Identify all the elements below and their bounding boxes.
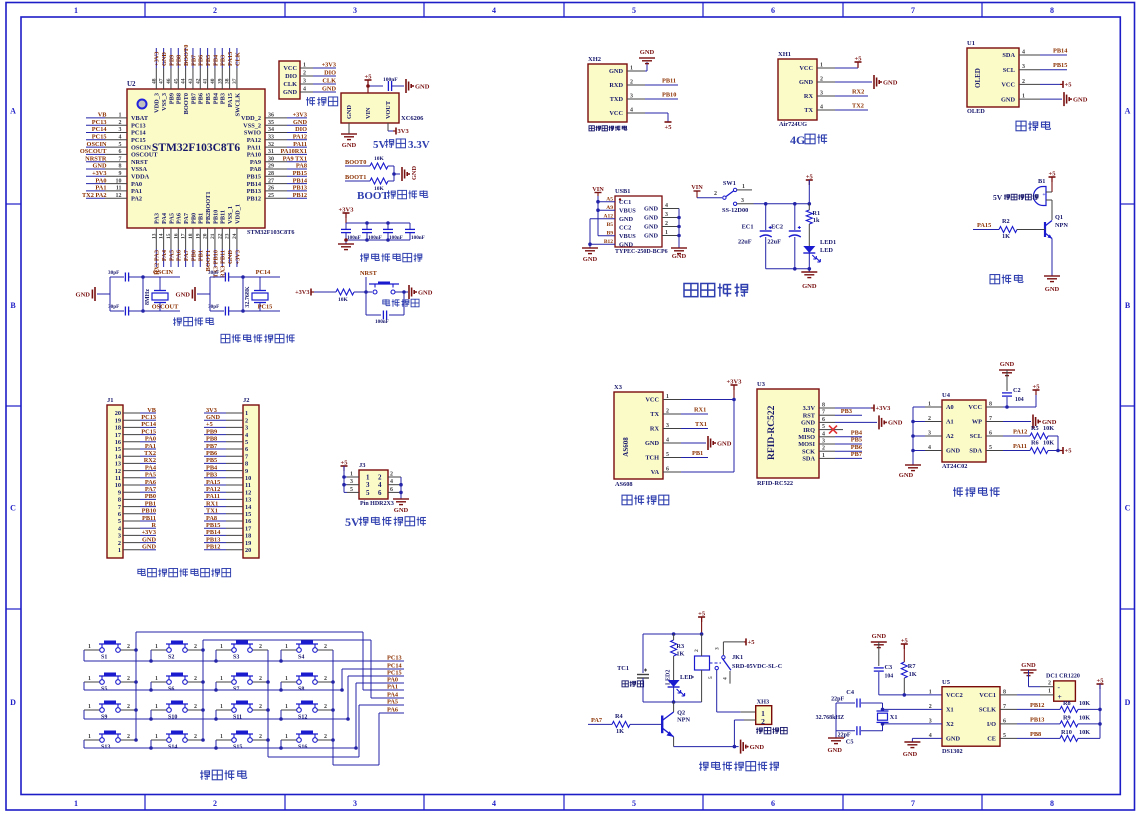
crystal 8MHz [145,277,168,311]
wire XH3 pin2 [733,720,756,748]
switch SW1 SS-12D00 [697,180,752,214]
label crystal circuit [173,317,214,325]
svg-text:+5: +5 [365,74,373,81]
svg-text:A: A [10,107,16,116]
svg-text:1: 1 [88,734,91,740]
svg-text:VDD_3: VDD_3 [154,93,161,113]
wire top rail [643,632,703,636]
power +5 right [1097,678,1105,739]
svg-text:PA11: PA11 [1013,443,1027,450]
svg-text:6: 6 [378,489,382,497]
svg-text:GND: GND [142,544,156,551]
svg-text:2: 2 [324,676,327,682]
svg-text:WP: WP [972,419,982,426]
svg-text:GND: GND [888,420,903,427]
svg-text:100nF: 100nF [347,235,361,241]
ground C2 top [999,361,1015,376]
svg-text:PA4: PA4 [145,464,157,471]
svg-text:4: 4 [119,135,122,141]
svg-text:X1: X1 [890,714,898,721]
svg-text:3: 3 [666,423,669,429]
svg-text:DIO: DIO [285,73,297,80]
net label PA15 [973,222,999,230]
svg-text:1: 1 [742,184,745,190]
svg-text:PC14: PC14 [131,130,147,137]
wire to XH3 [717,670,756,712]
wire keyboard row lines [84,650,400,750]
svg-text:Q2: Q2 [677,710,685,717]
svg-text:PC13: PC13 [141,414,156,421]
chip U2 STM32F103C8T6 [127,80,294,236]
svg-text:2: 2 [194,734,197,740]
power +5 [806,174,814,204]
svg-text:2: 2 [259,676,262,682]
power +5 [1040,81,1072,89]
svg-text:PB10: PB10 [142,508,156,515]
svg-text:R8: R8 [1063,700,1071,707]
svg-text:GND: GND [161,52,168,66]
svg-text:GND: GND [903,751,918,758]
svg-text:PB3: PB3 [841,408,852,415]
ground [341,134,357,149]
U2 pin 14 PA4 [159,212,168,267]
svg-text:37: 37 [232,78,238,84]
svg-text:PB5: PB5 [205,93,212,104]
svg-text:30pF: 30pF [208,270,219,276]
svg-text:44: 44 [181,78,187,84]
svg-text:10K: 10K [1079,700,1090,707]
svg-text:+5: +5 [748,639,756,646]
svg-text:6: 6 [822,417,825,423]
svg-text:14: 14 [245,504,252,511]
svg-text:PB14: PB14 [293,177,308,184]
svg-text:PB10: PB10 [662,92,676,99]
svg-text:2: 2 [761,717,765,726]
label relay control output [699,762,779,771]
svg-text:R6: R6 [1031,440,1039,447]
svg-text:1: 1 [88,644,91,650]
crystal 32.768K [245,277,268,311]
svg-text:VCC: VCC [1001,82,1015,89]
svg-text:PB15: PB15 [293,170,307,177]
wire right rail [141,275,145,313]
resistor R6 10K [1030,440,1060,454]
wire node NRST [354,277,368,294]
net label PC15 [385,670,404,677]
U2 pin 38 PA15 [225,48,234,107]
svg-text:1: 1 [155,644,158,650]
svg-text:PB1: PB1 [198,250,205,261]
U2 pin 36 VDD_2 [241,112,307,123]
svg-text:10K: 10K [1043,425,1054,432]
label matrix keyboard [200,770,247,780]
power +5 R7 [901,638,909,663]
svg-text:SWIO: SWIO [244,130,261,137]
svg-text:VCC1: VCC1 [979,692,996,699]
svg-text:STM32F103C8T6: STM32F103C8T6 [152,142,240,154]
svg-text:1: 1 [155,704,158,710]
svg-text:16: 16 [115,439,121,446]
svg-text:TX2: TX2 [144,450,156,457]
U2 pin 41 PB5 [203,48,212,104]
svg-text:3: 3 [715,647,721,650]
net label TX1 [681,421,708,429]
resistor R8 10K [1044,700,1100,712]
svg-text:CE: CE [987,736,996,743]
svg-text:TX2 PA2: TX2 PA2 [82,192,107,199]
svg-text:PB4: PB4 [851,430,863,437]
svg-text:SWCLK: SWCLK [234,93,241,117]
svg-text:1: 1 [220,676,223,682]
svg-text:8: 8 [119,164,122,170]
U2 pin 3 PC14 [86,126,147,137]
svg-text:GND: GND [644,215,658,222]
net label PB1 [681,450,708,458]
svg-text:D: D [10,698,16,707]
svg-text:3V3: 3V3 [398,128,410,135]
svg-text:4: 4 [492,6,496,15]
U2 pin 33 PA12 [247,134,307,145]
svg-text:1: 1 [285,644,288,650]
net label PA0 [385,677,404,684]
U2 pin 20 PB2BOOT1 [203,191,212,271]
svg-text:J1: J1 [107,397,114,404]
svg-text:GND: GND [1001,96,1015,103]
svg-text:21: 21 [210,233,216,239]
power +3V3 pin8 [835,405,891,413]
svg-text:SDA: SDA [802,456,815,463]
U2 pin 40 PB4 [210,48,219,104]
svg-text:2: 2 [259,704,262,710]
chip XC6206 regulator [341,93,424,123]
svg-text:RX: RX [650,426,660,433]
svg-text:VBAT: VBAT [131,115,149,122]
label buzzer [990,275,1023,284]
svg-text:U2: U2 [127,80,136,88]
svg-text:GND: GND [394,507,409,514]
svg-text:A1: A1 [946,419,954,426]
svg-text:6: 6 [989,431,992,437]
svg-text:C3: C3 [885,664,893,671]
svg-text:6: 6 [118,511,121,518]
net label PA4 [385,692,404,699]
svg-text:S2: S2 [168,655,174,661]
svg-text:GND: GND [346,105,353,119]
svg-text:3: 3 [350,479,353,485]
svg-text:OSCOUT: OSCOUT [152,304,179,311]
ground [741,740,765,754]
svg-text:PB3: PB3 [220,55,227,66]
net label PB11 [645,78,678,86]
U2 pin 9 VDDA [86,170,150,181]
power +5 pin1 [835,56,862,69]
svg-text:AS608: AS608 [615,481,633,488]
svg-text:RX1: RX1 [694,407,706,414]
svg-text:20: 20 [203,233,209,239]
svg-text:10K: 10K [374,156,385,162]
svg-text:VCC: VCC [968,404,982,411]
svg-text:GND: GND [672,253,687,260]
svg-text:104: 104 [885,674,894,680]
svg-text:GND: GND [872,633,887,640]
net label OSCOUT [143,304,180,312]
net label PA11 [1003,443,1030,451]
U2 pin 2 PC13 [86,119,146,129]
U2 pin 5 OSCIN [86,141,151,152]
svg-text:SCL: SCL [1003,67,1015,74]
capacitor C2 104 [1002,370,1024,407]
svg-text:6: 6 [666,467,669,473]
capacitor 30pF top [108,270,143,282]
net label RX2 [835,89,868,97]
svg-text:GND: GND [342,142,357,149]
U2 pin 6 OSCOUT [80,148,158,159]
svg-text:12: 12 [116,193,122,199]
button S12 [281,701,333,721]
svg-text:VSSA: VSSA [131,166,148,173]
wire rail [346,213,410,240]
net label PC14 [385,663,404,670]
svg-text:PB4: PB4 [206,464,218,471]
svg-text:PA6: PA6 [145,479,156,486]
svg-text:VB: VB [98,112,108,119]
svg-text:PA12: PA12 [206,486,220,493]
svg-text:2: 2 [118,540,121,547]
svg-text:1: 1 [820,63,823,69]
svg-text:PA12: PA12 [293,134,307,141]
svg-text:GND: GND [227,250,234,264]
wire [314,291,336,293]
svg-text:A0: A0 [946,404,954,411]
button S9 [84,701,136,721]
svg-text:GND: GND [899,472,914,479]
wire right rail [241,275,245,313]
svg-text:+3V3: +3V3 [142,529,156,536]
svg-text:PA12: PA12 [247,137,261,144]
svg-text:10: 10 [245,475,251,482]
svg-text:PB13: PB13 [1030,717,1044,724]
svg-text:C5: C5 [846,739,854,746]
U2 pin 48 VDD_3 [151,48,160,113]
svg-text:+5: +5 [1097,678,1105,685]
svg-text:31: 31 [268,149,274,155]
svg-text:2: 2 [665,221,668,227]
svg-text:6: 6 [119,149,122,155]
svg-text:+3V3: +3V3 [293,112,307,119]
svg-text:VDDA: VDDA [131,174,150,181]
svg-text:C: C [1125,504,1131,513]
svg-text:LED1: LED1 [820,239,836,246]
svg-text:2: 2 [213,6,217,15]
svg-text:PC15: PC15 [92,134,107,141]
svg-text:3: 3 [1022,64,1025,70]
svg-text:PA8: PA8 [250,166,261,173]
svg-text:+5: +5 [1065,81,1073,88]
svg-text:RX: RX [804,93,814,100]
connector USB1 TYPE-C [604,188,679,255]
svg-text:100nF: 100nF [389,235,403,241]
svg-text:7: 7 [911,799,915,808]
svg-text:B5: B5 [607,222,614,228]
svg-text:7: 7 [822,410,825,416]
svg-text:1: 1 [74,799,78,808]
wire VCC rail [681,398,736,472]
svg-text:PB9: PB9 [168,55,175,66]
svg-text:GND: GND [640,49,655,56]
svg-text:11: 11 [245,482,251,489]
svg-text:SCLK: SCLK [979,707,996,714]
svg-text:12: 12 [245,489,251,496]
ground [801,269,817,290]
svg-text:1: 1 [220,644,223,650]
svg-text:+5: +5 [1049,171,1057,178]
svg-text:PB5: PB5 [205,55,212,66]
svg-text:+5: +5 [665,124,673,131]
svg-text:32.768kHZ: 32.768kHZ [816,715,845,721]
U2 pin 4 PC15 [86,134,146,145]
svg-text:3: 3 [928,431,931,437]
svg-text:VDD_2: VDD_2 [241,115,261,122]
svg-text:PB1: PB1 [145,500,156,507]
svg-text:PB6: PB6 [198,93,205,104]
svg-text:GND: GND [76,291,91,298]
svg-text:PB1: PB1 [692,450,703,457]
U2 pin 29 PA8 [250,163,307,174]
svg-text:TC1: TC1 [617,665,629,672]
label download port [306,97,338,106]
svg-text:PB14: PB14 [247,181,262,188]
svg-text:TYPEC-250D-BCP6: TYPEC-250D-BCP6 [615,249,668,255]
svg-text:PC15: PC15 [387,670,402,677]
svg-text:13: 13 [151,233,157,239]
svg-text:PB7: PB7 [190,55,197,66]
svg-text:NRST: NRST [360,270,378,277]
svg-text:46: 46 [166,78,172,84]
svg-text:6: 6 [771,6,775,15]
svg-text:PB14: PB14 [206,529,221,536]
wire [1051,200,1053,220]
svg-text:47: 47 [159,78,165,84]
relay switch JK1 [708,642,782,684]
resistor R5 10K [1030,425,1058,451]
label MCU minimal system [221,334,295,342]
svg-text:R1: R1 [812,210,820,217]
svg-text:PC14: PC14 [141,421,157,428]
resistor R9 10K [1044,715,1100,727]
U2 pin 31 PA10 [247,148,307,159]
svg-text:+3V3: +3V3 [339,207,355,214]
svg-text:PA12: PA12 [1013,429,1027,436]
connector XH2 [588,56,645,122]
svg-text:3V3: 3V3 [206,407,217,414]
power +5 [1033,384,1041,396]
svg-text:GND: GND [418,289,433,296]
svg-text:19: 19 [195,233,201,239]
svg-text:PB14: PB14 [1053,48,1068,55]
svg-text:XC6206: XC6206 [401,115,424,122]
wire bottom rail [766,253,811,271]
button S2 [151,641,203,661]
svg-text:GND: GND [645,440,659,447]
svg-text:IRQ: IRQ [803,427,815,434]
svg-text:J3: J3 [359,462,366,469]
svg-text:R3: R3 [676,643,684,650]
net label PB3 [835,408,862,415]
wire X1 X2 [881,703,942,731]
svg-text:PA7: PA7 [591,717,602,724]
svg-text:22pF: 22pF [831,697,844,703]
svg-text:3: 3 [353,799,357,808]
svg-text:PC15: PC15 [131,137,146,144]
svg-text:PC13: PC13 [131,122,146,129]
svg-text:DS1302: DS1302 [942,748,963,755]
svg-text:C2: C2 [1013,387,1021,394]
svg-text:11: 11 [116,186,122,192]
wire left rail [209,277,211,311]
svg-text:PB11: PB11 [662,78,676,85]
svg-text:NPN: NPN [1055,222,1068,229]
svg-text:48: 48 [151,78,157,84]
capacitor 100nF [362,221,382,242]
wire VBUS rail left [596,196,615,236]
svg-text:PB8: PB8 [206,436,217,443]
U2 pin 26 PB13 [247,185,307,196]
svg-text:45: 45 [173,78,179,84]
U2 pin 7 NRST [85,155,148,166]
svg-text:PB11: PB11 [220,210,227,224]
svg-text:GND: GND [1000,361,1015,368]
net label PB7 [835,451,862,458]
svg-text:+3V3: +3V3 [154,52,161,66]
ground pin2 [835,75,898,89]
svg-text:40: 40 [210,78,216,84]
svg-text:PA1: PA1 [387,684,398,691]
svg-text:S4: S4 [298,655,304,661]
wire left rail [109,277,111,311]
net label PB12 [1017,702,1044,709]
svg-text:16: 16 [245,518,251,525]
svg-text:14: 14 [159,233,165,239]
wire left gnd rail [911,407,915,465]
svg-text:1: 1 [74,6,78,15]
svg-text:PC13: PC13 [387,655,402,662]
svg-text:GND: GND [609,68,623,75]
svg-text:PA0: PA0 [131,181,142,188]
svg-text:RST: RST [803,412,816,419]
svg-text:19: 19 [245,540,251,547]
svg-text:GND: GND [802,283,817,290]
wire VCC1 [1017,689,1054,695]
U2 pin 46 PB9 [166,48,175,104]
net label BOOT0 [345,159,370,166]
crystal X1 32.768kHZ [816,711,898,722]
svg-text:PA7: PA7 [145,486,156,493]
svg-text:PA5: PA5 [387,699,398,706]
label BOOT config circuit [357,190,428,202]
svg-text:35: 35 [268,120,274,126]
svg-text:100nF: 100nF [383,77,398,83]
svg-text:6: 6 [771,799,775,808]
svg-text:VA: VA [651,469,660,476]
U2 pin 18 PB0 [188,213,197,267]
wire cap branch [366,290,406,315]
capacitor 100nF [375,311,389,326]
connector X3 AS608 [614,384,681,488]
svg-text:+5: +5 [806,174,814,181]
svg-text:PA0: PA0 [145,436,156,443]
svg-text:8: 8 [118,497,121,504]
svg-text:1K: 1K [909,671,917,678]
